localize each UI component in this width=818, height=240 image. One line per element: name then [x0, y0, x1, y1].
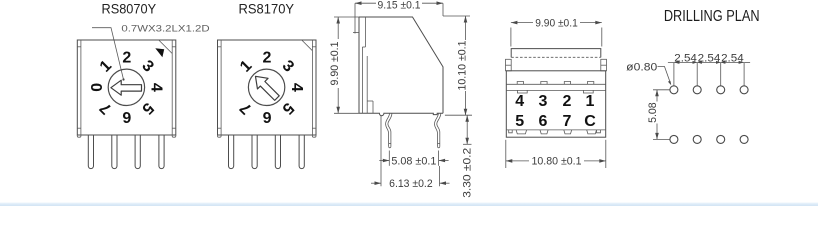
svg-text:10.10 ±0.1: 10.10 ±0.1	[456, 41, 468, 91]
dim 9.15 top	[353, 0, 443, 33]
side view bent pin B	[435, 113, 441, 148]
S2 digits 1-7	[237, 49, 305, 125]
front view base	[506, 71, 605, 137]
svg-text:2: 2	[263, 49, 272, 66]
S1 rotor circle	[108, 69, 144, 105]
svg-text:2: 2	[562, 93, 571, 110]
svg-text:0: 0	[89, 83, 106, 92]
svg-text:6: 6	[122, 108, 131, 125]
dim 10.10 right side view	[443, 16, 472, 115]
dim 6.13 side	[371, 116, 450, 190]
svg-text:4: 4	[515, 93, 524, 110]
svg-text:3: 3	[539, 93, 548, 110]
svg-text:7: 7	[562, 113, 571, 130]
svg-text:6: 6	[539, 113, 548, 130]
front view cover	[511, 49, 601, 58]
bottom blue strip	[0, 202, 818, 206]
front view pin numbers row 2	[515, 113, 596, 130]
front view 9.90 dim	[511, 17, 602, 46]
svg-text:5.08 ±0.1: 5.08 ±0.1	[391, 155, 436, 167]
svg-text:5: 5	[515, 113, 524, 130]
svg-text:RS8070Y: RS8070Y	[102, 1, 157, 17]
svg-text:9.90 ±0.1: 9.90 ±0.1	[329, 42, 341, 86]
S2 arrow slot rotated	[250, 71, 282, 103]
drill holes bottom row	[670, 135, 748, 143]
svg-text:6: 6	[262, 108, 271, 125]
dim 5.08 drilling	[647, 90, 670, 140]
svg-text:9.90 ±0.1: 9.90 ±0.1	[535, 17, 578, 29]
svg-text:C: C	[584, 113, 596, 130]
hole diameter label	[626, 62, 671, 86]
leader line to slot	[92, 28, 125, 81]
svg-text:1: 1	[586, 93, 595, 110]
svg-text:ø0.80: ø0.80	[626, 62, 657, 74]
svg-text:10.80 ±0.1: 10.80 ±0.1	[532, 156, 582, 168]
chain dim 2.54 x3	[668, 52, 750, 85]
svg-text:DRILLING PLAN: DRILLING PLAN	[664, 8, 760, 25]
svg-text:2.54: 2.54	[721, 52, 744, 64]
svg-text:2.54: 2.54	[698, 52, 721, 64]
svg-text:2: 2	[122, 49, 131, 66]
svg-text:2.54: 2.54	[674, 52, 697, 64]
S1 digits 0-7	[89, 49, 165, 125]
front view pin numbers row 1	[515, 93, 594, 110]
svg-text:9.15 ±0.1: 9.15 ±0.1	[378, 0, 421, 12]
svg-text:0.7WX3.2LX1.2D: 0.7WX3.2LX1.2D	[121, 23, 210, 33]
svg-text:6.13 ±0.2: 6.13 ±0.2	[389, 178, 433, 190]
S1 arrow slot	[111, 80, 142, 95]
dim 9.90 left side view	[329, 17, 359, 113]
svg-text:4: 4	[288, 83, 305, 92]
side view body	[359, 17, 443, 116]
svg-text:RS8170Y: RS8170Y	[239, 1, 295, 17]
S1 pins	[88, 135, 164, 169]
drill holes top row	[670, 86, 748, 94]
dim 10.80 front	[506, 140, 606, 168]
dim 5.08 side	[379, 151, 448, 168]
switch S2 RS8170Y body	[218, 40, 317, 137]
front view side tabs	[506, 59, 607, 71]
dim 3.30 side	[461, 115, 473, 198]
svg-text:4: 4	[148, 83, 165, 92]
S2 pins	[229, 135, 305, 169]
svg-text:5.08: 5.08	[647, 102, 659, 123]
switch S1 RS8070Y body	[77, 40, 176, 137]
side view bent pin A	[386, 113, 392, 148]
S1 corner triangle marker	[155, 48, 164, 57]
svg-text:3.30 ±0.2: 3.30 ±0.2	[461, 148, 473, 198]
S2 rotor circle	[248, 69, 284, 105]
